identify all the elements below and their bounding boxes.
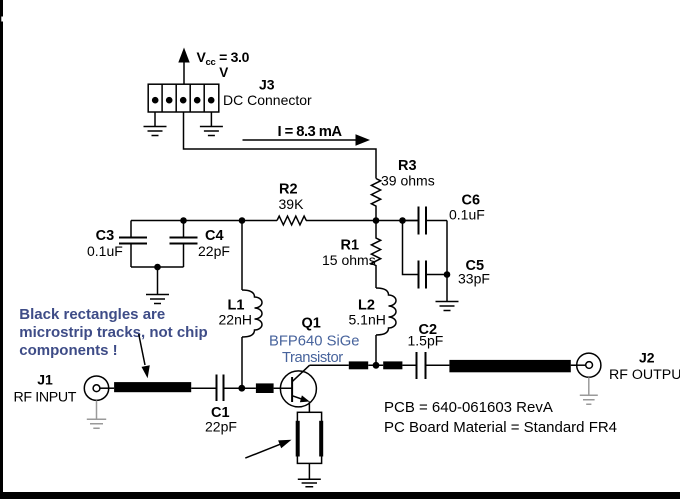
microstrip track base bbox=[256, 383, 274, 393]
microstrip track input bbox=[114, 382, 191, 392]
current arrow I = 8.3 mA bbox=[243, 134, 371, 145]
svg-text:R2: R2 bbox=[279, 182, 298, 198]
svg-text:Q1: Q1 bbox=[302, 316, 321, 332]
microstrip track collector left bbox=[349, 361, 368, 369]
connector J1 bbox=[84, 376, 114, 400]
ground under J3 pin5 bbox=[200, 127, 223, 136]
wire base microstrip to Q1 bbox=[245, 387, 292, 389]
svg-text:0.1uF: 0.1uF bbox=[449, 207, 485, 223]
node dot rail-C6C5 bbox=[399, 217, 406, 224]
resistor R3 bbox=[371, 179, 380, 221]
svg-text:5.1nH: 5.1nH bbox=[349, 311, 386, 327]
microstrip track collector right bbox=[383, 361, 402, 369]
page border left bar bbox=[0, 0, 3, 499]
svg-text:15 ohms: 15 ohms bbox=[322, 252, 376, 268]
svg-text:C3: C3 bbox=[96, 228, 115, 244]
wire via box to ground bbox=[308, 463, 310, 478]
svg-text:Black rectangles are: Black rectangles are bbox=[19, 306, 165, 323]
ground J2 (gray) bbox=[580, 395, 598, 404]
wire J3 pin5 to ground bbox=[210, 112, 212, 126]
capacitor C5 bbox=[419, 261, 448, 289]
capacitor C6 bbox=[403, 207, 448, 235]
wire collector rail bbox=[310, 364, 577, 366]
resistor R1 bbox=[371, 221, 380, 289]
page border bottom bar bbox=[0, 492, 680, 499]
node dot rail-L1 bbox=[239, 217, 246, 224]
wire microstrip to C1 bbox=[191, 387, 216, 389]
svg-text:BFP640 SiGe: BFP640 SiGe bbox=[269, 334, 359, 350]
svg-text:J2: J2 bbox=[639, 349, 655, 365]
node dot C3C4 gnd bbox=[154, 264, 161, 271]
label Vcc = 3.0 V bbox=[197, 49, 250, 80]
svg-text:components !: components ! bbox=[19, 342, 117, 359]
svg-text:J1: J1 bbox=[37, 372, 53, 388]
wire C6-C5 right side bbox=[446, 221, 448, 275]
svg-text:V: V bbox=[219, 65, 228, 80]
svg-text:22pF: 22pF bbox=[198, 243, 230, 259]
svg-text:22pF: 22pF bbox=[205, 418, 237, 434]
svg-text:22nH: 22nH bbox=[219, 311, 252, 327]
note text black rectangles bbox=[19, 306, 207, 359]
wire main top rail bbox=[131, 220, 418, 222]
connector J3 body bbox=[148, 84, 219, 112]
inductor L1 bbox=[242, 221, 262, 389]
svg-text:39K: 39K bbox=[279, 196, 305, 212]
svg-text:C4: C4 bbox=[205, 228, 224, 244]
ground C3C4 bbox=[146, 295, 169, 304]
ground emitter via bbox=[298, 479, 321, 486]
svg-text:0.1uF: 0.1uF bbox=[87, 243, 123, 259]
svg-text:J3: J3 bbox=[259, 77, 275, 93]
svg-text:DC Connector: DC Connector bbox=[223, 92, 312, 108]
wire J3 pin1 to ground bbox=[154, 112, 156, 126]
node dot C5 gnd bbox=[444, 271, 451, 278]
capacitor C1 bbox=[217, 375, 242, 402]
inductor L2 bbox=[376, 288, 396, 365]
node dot C1-L1-base bbox=[238, 385, 245, 392]
microstrip via box emitter bbox=[296, 412, 324, 463]
ground C5C6 bbox=[436, 302, 459, 311]
ground J1 (gray) bbox=[87, 419, 106, 428]
svg-text:Transistor: Transistor bbox=[282, 350, 343, 366]
connector J2 bbox=[571, 353, 601, 377]
svg-text:RF INPUT: RF INPUT bbox=[14, 390, 77, 406]
wire J1 to ground bbox=[96, 400, 98, 418]
capacitor C2 bbox=[417, 352, 426, 379]
svg-text:R1: R1 bbox=[341, 237, 360, 253]
svg-text:33pF: 33pF bbox=[458, 270, 490, 286]
node dot rail-C4 bbox=[180, 217, 187, 224]
wire C5 left side bbox=[403, 221, 419, 275]
svg-text:PCB = 640-061603 RevA: PCB = 640-061603 RevA bbox=[384, 399, 553, 416]
svg-text:RF OUTPUT: RF OUTPUT bbox=[609, 367, 680, 383]
svg-text:I = 8.3 mA: I = 8.3 mA bbox=[278, 124, 343, 140]
wire J3 pin3 down and right to R3 bbox=[184, 112, 377, 179]
node dot collector-L2 bbox=[373, 362, 380, 369]
annotation arrow to via box bbox=[245, 440, 291, 458]
Vcc power arrow bbox=[178, 48, 189, 85]
microstrip track output bbox=[449, 360, 570, 372]
svg-text:1.5pF: 1.5pF bbox=[408, 333, 444, 349]
wire to ground C5 bbox=[446, 275, 448, 302]
svg-text:39 ohms: 39 ohms bbox=[381, 172, 435, 188]
capacitor C3 bbox=[119, 221, 147, 268]
wire to ground C3C4 bbox=[157, 267, 159, 294]
annotation arrow to input microstrip bbox=[139, 334, 150, 378]
node dot rail-R3R1 bbox=[373, 217, 380, 224]
transistor Q1 bbox=[280, 365, 316, 412]
resistor R2 bbox=[277, 216, 306, 225]
svg-text:microstrip tracks, not chip: microstrip tracks, not chip bbox=[19, 324, 207, 341]
wire J2 to ground bbox=[588, 377, 590, 395]
ground under J3 pin1 bbox=[144, 127, 167, 136]
svg-text:PC Board Material = Standard F: PC Board Material = Standard FR4 bbox=[384, 419, 617, 436]
capacitor C4 bbox=[170, 221, 198, 268]
wire C3-C4 bottom bbox=[131, 266, 184, 268]
